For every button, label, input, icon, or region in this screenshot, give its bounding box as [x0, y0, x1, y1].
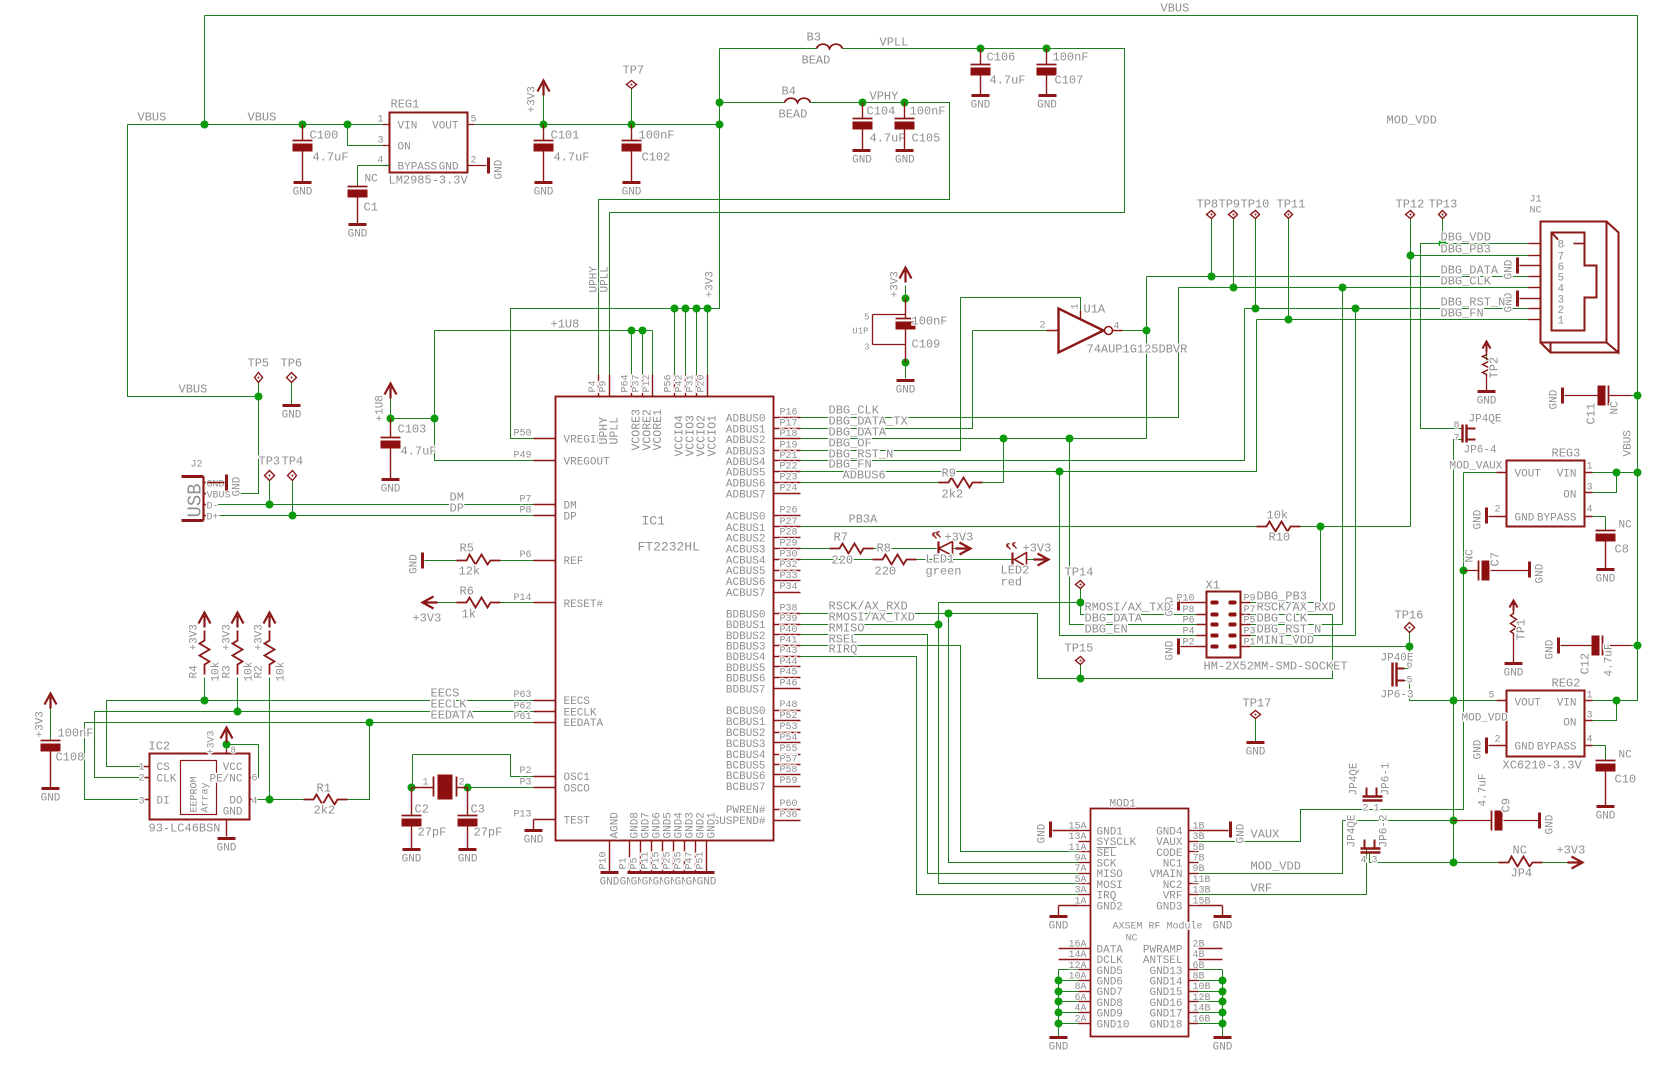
- ground IC1 TEST: [525, 829, 543, 832]
- svg-text:13A: 13A: [1068, 832, 1086, 843]
- svg-text:4: 4: [1114, 322, 1120, 333]
- svg-text:P46: P46: [780, 678, 798, 689]
- wire VPLL cap taps: [981, 49, 1047, 65]
- svg-text:P59: P59: [780, 776, 798, 787]
- svg-text:GND: GND: [282, 410, 302, 422]
- svg-text:8: 8: [231, 746, 236, 756]
- net DBG_OF: [801, 298, 961, 451]
- capacitor C10: [1605, 760, 1607, 762]
- svg-text:GND2: GND2: [1097, 901, 1123, 913]
- svg-text:GND: GND: [1504, 259, 1516, 279]
- svg-text:TP10: TP10: [1241, 198, 1270, 212]
- svg-text:C10: C10: [1615, 773, 1637, 787]
- net EECLK: [95, 712, 534, 778]
- capacitor C108: [50, 740, 52, 742]
- net RESET# via R6: [425, 602, 534, 604]
- capacitor C106: [980, 49, 982, 65]
- svg-text:NC: NC: [1619, 520, 1633, 532]
- wire TP15 stem: [1080, 665, 1082, 679]
- svg-text:TP8: TP8: [1197, 198, 1219, 212]
- svg-text:U1A: U1A: [1084, 303, 1106, 317]
- svg-text:DP: DP: [450, 502, 464, 516]
- svg-text:GND: GND: [697, 877, 717, 889]
- svg-text:VOUT: VOUT: [432, 121, 459, 133]
- crystal Q1: [434, 777, 457, 797]
- svg-text:3: 3: [1587, 483, 1593, 494]
- capacitor C102: [631, 125, 633, 141]
- ground MOD1 right bus: [1214, 1036, 1232, 1039]
- wire JP6-2 pin3 to JP4 row: [1370, 854, 1509, 863]
- ground REG3 pin2: [1485, 508, 1488, 524]
- svg-text:+3V3: +3V3: [1023, 542, 1052, 556]
- svg-text:2: 2: [1494, 505, 1500, 516]
- svg-text:+3V3: +3V3: [221, 624, 233, 650]
- svg-text:GND: GND: [217, 843, 237, 855]
- svg-text:VRF: VRF: [1251, 882, 1273, 896]
- net VPHY loop: [599, 103, 950, 375]
- svg-text:P62: P62: [513, 702, 531, 713]
- svg-text:JP4QE: JP4QE: [1347, 814, 1359, 847]
- svg-text:RESET#: RESET#: [564, 599, 604, 611]
- svg-text:GND: GND: [293, 187, 313, 199]
- svg-text:JP6-4: JP6-4: [1464, 445, 1497, 457]
- svg-text:R8: R8: [877, 542, 891, 556]
- capacitor C9: [1491, 811, 1493, 831]
- svg-text:BCBUS7: BCBUS7: [726, 782, 766, 794]
- svg-text:C3: C3: [471, 803, 485, 817]
- svg-text:C7: C7: [1489, 552, 1503, 566]
- svg-text:DBG_EN: DBG_EN: [1085, 623, 1128, 637]
- svg-text:VBUS: VBUS: [179, 383, 208, 397]
- svg-text:MOD1: MOD1: [1110, 799, 1137, 811]
- svg-text:5A: 5A: [1074, 875, 1086, 886]
- svg-text:8: 8: [1453, 421, 1459, 432]
- svg-text:EECS: EECS: [564, 696, 591, 708]
- svg-text:R1: R1: [317, 782, 331, 796]
- svg-text:4.7uF: 4.7uF: [401, 445, 437, 459]
- svg-text:VPHY: VPHY: [870, 90, 899, 104]
- svg-text:C1: C1: [364, 201, 378, 215]
- svg-text:TP13: TP13: [1429, 198, 1458, 212]
- wire DBG_PB3 to J1 pin7: [1411, 255, 1529, 257]
- svg-text:PE/NC: PE/NC: [209, 774, 242, 786]
- wire VBUS down-left to USB area: [128, 125, 259, 397]
- svg-text:EEPROM: EEPROM: [190, 776, 201, 812]
- svg-text:TP9: TP9: [1219, 198, 1241, 212]
- wire DBG_RST_N to X1 P3: [1251, 309, 1356, 636]
- testpoint TP4: [288, 471, 297, 481]
- capacitor C2: [411, 788, 413, 816]
- wire TP6 stem: [291, 382, 293, 405]
- net OSC0 / crystal row: [412, 755, 534, 788]
- net PB3A to R10: [801, 526, 1257, 528]
- svg-text:TEST: TEST: [564, 816, 591, 828]
- svg-text:TP1: TP1: [1515, 619, 1529, 641]
- svg-text:GND: GND: [439, 162, 459, 174]
- svg-text:P35: P35: [674, 851, 685, 869]
- MOD1 DATA/DCLK stubs: [1059, 949, 1091, 960]
- svg-text:P61: P61: [513, 712, 531, 723]
- testpoint TP10: [1251, 211, 1260, 219]
- net DBG_DATA_TX: [801, 331, 973, 429]
- svg-text:GND: GND: [1515, 513, 1535, 525]
- svg-text:12k: 12k: [459, 565, 481, 579]
- IC IC1 FT2232HL: [556, 397, 774, 841]
- wire +3V3 arrow stem: [543, 96, 545, 125]
- svg-text:R7: R7: [834, 531, 848, 545]
- svg-text:GND: GND: [231, 476, 243, 496]
- connector J1: [1541, 222, 1607, 343]
- net DP: [207, 515, 534, 517]
- svg-text:P25: P25: [663, 851, 674, 869]
- wire REG2 ON to VIN: [1585, 701, 1617, 721]
- USB connector J2: [202, 477, 204, 521]
- svg-text:P30: P30: [780, 550, 798, 561]
- svg-text:R9: R9: [942, 467, 956, 481]
- svg-text:VBUS: VBUS: [207, 491, 231, 502]
- svg-text:VCORE1: VCORE1: [652, 409, 665, 451]
- wire TP13 stem: [1442, 219, 1444, 244]
- svg-text:D-: D-: [207, 502, 219, 513]
- svg-text:BEAD: BEAD: [802, 54, 831, 68]
- testpoint TP1: [1510, 601, 1518, 611]
- svg-text:GND: GND: [494, 159, 506, 179]
- net VRF to JP6-2 pin4: [1199, 848, 1367, 895]
- svg-text:5: 5: [864, 313, 869, 323]
- ferrite bead B3: [817, 44, 843, 48]
- ground TP2: [1478, 390, 1496, 393]
- jumper JP6-1 (JP40E): [1363, 797, 1383, 801]
- ground MOD1 GND4: [1199, 830, 1229, 832]
- svg-text:P26: P26: [780, 506, 798, 517]
- svg-text:TP14: TP14: [1065, 566, 1094, 580]
- svg-text:GND: GND: [1473, 509, 1485, 529]
- power +3V3 arrow at R4: [199, 613, 211, 628]
- svg-text:GND: GND: [1037, 100, 1057, 112]
- jumper JP6-3 (JP40E): [1393, 663, 1397, 687]
- svg-text:GND: GND: [458, 854, 478, 866]
- svg-text:VBUS: VBUS: [1161, 2, 1190, 16]
- wire TP2 top: [1486, 353, 1488, 361]
- svg-text:P31: P31: [686, 374, 697, 392]
- svg-text:5: 5: [471, 115, 477, 126]
- svg-text:TP15: TP15: [1065, 642, 1094, 656]
- svg-text:NC: NC: [1530, 206, 1542, 217]
- svg-text:P9: P9: [598, 380, 609, 392]
- wire VPHY cap taps: [863, 103, 905, 119]
- svg-text:P13: P13: [513, 810, 531, 821]
- svg-text:GND: GND: [1049, 921, 1069, 933]
- svg-text:GND: GND: [1515, 742, 1535, 754]
- svg-text:VREGOUT: VREGOUT: [564, 457, 611, 469]
- net DM: [207, 504, 534, 506]
- svg-text:7: 7: [1453, 434, 1459, 445]
- net ADBUS6 to R9: [801, 482, 939, 484]
- wire R8 to LED2: [917, 559, 1012, 561]
- capacitor C107: [1046, 49, 1048, 65]
- wire TP17 stem: [1255, 719, 1257, 742]
- svg-text:+3V3: +3V3: [207, 730, 218, 754]
- wire TP4 stem: [292, 480, 294, 516]
- ground REG2 pin2: [1485, 738, 1488, 754]
- svg-text:P2: P2: [1182, 637, 1194, 648]
- IC1 bottom GND pin stubs: [609, 841, 611, 872]
- wire JP6-3 pin5 to REG2 VOUT: [1405, 681, 1497, 701]
- svg-text:P3: P3: [519, 777, 531, 788]
- wire MOD_VAUX down to module 3B: [1199, 473, 1464, 842]
- svg-text:C101: C101: [551, 129, 580, 143]
- voltage regulator REG1 LM2985-3.3V: [390, 113, 468, 173]
- wire DBG_CLK to X1 P5: [1251, 288, 1343, 625]
- svg-text:1: 1: [1587, 691, 1593, 702]
- svg-text:C107: C107: [1055, 74, 1084, 88]
- ground bus under IC1: [601, 871, 619, 874]
- svg-text:R3: R3: [221, 665, 233, 678]
- ground J1 pin6: [1516, 258, 1519, 274]
- wire R7 to LED1: [874, 548, 937, 550]
- svg-text:2: 2: [459, 778, 465, 789]
- net MINI_VDD / TP16 / JP6-3 pin6: [1251, 632, 1410, 669]
- svg-text:GND: GND: [41, 793, 61, 805]
- IC1 left pin stubs: [534, 438, 556, 440]
- svg-text:P43: P43: [780, 646, 798, 657]
- svg-text:P39: P39: [780, 614, 798, 625]
- svg-text:8: 8: [1558, 240, 1565, 252]
- svg-text:ADBUS2: ADBUS2: [726, 435, 766, 447]
- svg-text:P18: P18: [780, 429, 798, 440]
- svg-text:Array: Array: [201, 782, 212, 812]
- svg-text:100nF: 100nF: [58, 727, 94, 741]
- net RMISO: [801, 635, 1079, 874]
- svg-text:GND: GND: [1545, 639, 1557, 659]
- svg-text:IC1: IC1: [642, 514, 666, 529]
- power +3V3 arrow at LED1: [956, 543, 971, 555]
- svg-text:4: 4: [377, 156, 383, 167]
- svg-text:11B: 11B: [1193, 875, 1211, 886]
- ground X1 P10: [1177, 595, 1180, 611]
- svg-text:TP16: TP16: [1395, 609, 1424, 623]
- svg-text:P10: P10: [599, 851, 610, 869]
- svg-text:LM2985-3.3V: LM2985-3.3V: [389, 174, 469, 188]
- power +3V3 arrow at R3: [232, 613, 244, 628]
- ground J1 pin3: [1516, 291, 1519, 307]
- net RSEL: [801, 646, 1079, 852]
- svg-text:FT2232HL: FT2232HL: [638, 540, 700, 555]
- svg-text:VAUX: VAUX: [1251, 828, 1280, 842]
- svg-text:220: 220: [875, 565, 897, 579]
- ground TP17: [1247, 741, 1265, 744]
- svg-text:P7: P7: [1244, 605, 1256, 616]
- svg-text:P1: P1: [619, 857, 630, 869]
- svg-text:SUSPEND#: SUSPEND#: [713, 816, 766, 828]
- svg-text:ACBUS0: ACBUS0: [726, 512, 766, 524]
- svg-text:GND10: GND10: [1097, 1019, 1130, 1031]
- svg-text:P34: P34: [780, 582, 798, 593]
- svg-text:P36: P36: [780, 810, 798, 821]
- ground USB GND pin: [225, 475, 228, 491]
- svg-text:P5: P5: [630, 857, 641, 869]
- svg-text:R5: R5: [460, 542, 474, 556]
- svg-text:P19: P19: [780, 440, 798, 451]
- wire TP14 stem: [1080, 589, 1082, 603]
- svg-text:GND: GND: [348, 229, 368, 241]
- svg-text:GND: GND: [895, 155, 915, 167]
- svg-text:+1U8: +1U8: [375, 395, 387, 421]
- svg-text:TP5: TP5: [248, 357, 270, 371]
- svg-text:JP6-1: JP6-1: [1381, 762, 1393, 795]
- svg-text:P28: P28: [780, 528, 798, 539]
- svg-text:ADBUS6: ADBUS6: [843, 469, 886, 483]
- svg-text:CLK: CLK: [157, 774, 177, 786]
- svg-text:1: 1: [1587, 462, 1593, 473]
- capacitor C105: [904, 103, 906, 119]
- svg-text:100nF: 100nF: [912, 315, 948, 329]
- resistor JP4 NC: [1499, 857, 1543, 867]
- svg-text:100nF: 100nF: [910, 105, 946, 119]
- svg-text:C104: C104: [867, 105, 896, 119]
- resistor R9: [939, 478, 983, 488]
- svg-text:4: 4: [1587, 505, 1593, 516]
- svg-text:green: green: [926, 565, 962, 579]
- svg-text:P4: P4: [1182, 626, 1194, 637]
- svg-text:5B: 5B: [1193, 843, 1205, 854]
- svg-text:P10: P10: [1176, 594, 1194, 605]
- svg-text:GND: GND: [1213, 1042, 1233, 1054]
- svg-text:USB: USB: [185, 483, 207, 517]
- svg-text:DBG_FN: DBG_FN: [1441, 307, 1484, 321]
- svg-text:GND: GND: [409, 554, 421, 574]
- svg-text:IC2: IC2: [149, 740, 171, 754]
- capacitor C12: [1592, 636, 1600, 656]
- capacitor C11: [1598, 386, 1606, 406]
- svg-text:NC: NC: [1610, 401, 1622, 415]
- power +3V3 arrow at C109: [900, 268, 912, 283]
- capacitor C3: [467, 788, 469, 816]
- svg-text:R10: R10: [1269, 531, 1291, 545]
- svg-text:BYPASS: BYPASS: [1537, 742, 1577, 754]
- svg-text:VIN: VIN: [1557, 698, 1577, 710]
- LED LED2 red: [1011, 553, 1013, 567]
- svg-text:TP6: TP6: [281, 357, 303, 371]
- testpoint TP5: [255, 373, 263, 383]
- svg-text:CS: CS: [157, 762, 171, 774]
- ground C12: [1557, 638, 1560, 654]
- svg-text:DP: DP: [564, 512, 578, 524]
- net EECS: [107, 701, 534, 767]
- svg-text:GND: GND: [1535, 563, 1547, 583]
- power +3V3 arrow at LED2: [1034, 554, 1049, 566]
- svg-text:6: 6: [252, 774, 258, 785]
- svg-text:4.7uF: 4.7uF: [313, 151, 349, 165]
- testpoint TP6: [287, 373, 297, 383]
- svg-text:MOD_VDD: MOD_VDD: [1387, 114, 1437, 128]
- svg-text:+3V3: +3V3: [705, 271, 717, 297]
- capacitor C104: [862, 103, 864, 119]
- power +3V3 arrow at C108: [45, 694, 57, 709]
- capacitor C1: [357, 186, 359, 188]
- svg-text:C105: C105: [912, 132, 941, 146]
- svg-text:OSCO: OSCO: [564, 783, 591, 795]
- svg-text:TP7: TP7: [623, 64, 645, 78]
- svg-text:MOD_VDD: MOD_VDD: [1462, 713, 1509, 725]
- svg-text:P32: P32: [780, 560, 798, 571]
- wire C109 power taps: [905, 286, 907, 379]
- ground TP1: [1505, 662, 1523, 665]
- ground R5: [421, 553, 424, 569]
- resistor R2: [265, 631, 275, 675]
- voltage regulator REG2 XC6210-3.3V: [1507, 691, 1585, 757]
- jumper JP6-2 (JP40E): [1361, 849, 1381, 853]
- svg-text:REG2: REG2: [1552, 677, 1581, 691]
- svg-text:P5: P5: [1244, 616, 1256, 627]
- svg-text:4: 4: [1587, 735, 1593, 746]
- svg-text:P15: P15: [652, 851, 663, 869]
- svg-text:P51: P51: [696, 851, 707, 869]
- svg-text:P1: P1: [1244, 637, 1256, 648]
- svg-text:+3V3: +3V3: [945, 531, 974, 545]
- svg-text:P7: P7: [519, 495, 531, 506]
- ground X1 P2: [1177, 639, 1180, 655]
- testpoint TP14: [1076, 581, 1085, 589]
- svg-text:C100: C100: [310, 129, 339, 143]
- svg-text:VCC: VCC: [223, 762, 243, 774]
- wire C11 to VBUS: [1632, 395, 1638, 397]
- svg-text:TP3: TP3: [259, 455, 281, 469]
- testpoint TP3: [265, 471, 275, 481]
- svg-text:UPLL: UPLL: [600, 266, 612, 292]
- svg-text:J1: J1: [1530, 195, 1542, 206]
- net RSCK/AX_RXD: [801, 614, 1333, 679]
- capacitor C109: [905, 299, 907, 319]
- svg-text:P37: P37: [632, 374, 643, 392]
- svg-text:4: 4: [1361, 856, 1367, 867]
- svg-text:EEDATA: EEDATA: [431, 709, 475, 723]
- testpoint TP7: [627, 81, 637, 89]
- wire VBUS drop to REG1 row: [204, 16, 206, 125]
- svg-text:VCCIO1: VCCIO1: [707, 415, 720, 457]
- resistor R6: [457, 598, 501, 608]
- svg-text:13B: 13B: [1193, 886, 1211, 897]
- wire C108 stem: [50, 704, 52, 741]
- svg-text:+3V3: +3V3: [527, 86, 539, 112]
- svg-text:GND: GND: [896, 385, 916, 397]
- svg-text:27pF: 27pF: [418, 826, 447, 840]
- svg-text:GND: GND: [1037, 823, 1049, 843]
- wire R2 bottom to DO row: [269, 678, 271, 800]
- resistor R7: [830, 544, 874, 554]
- buffer U1A 74AUP1G125: [1059, 309, 1104, 353]
- svg-text:4.7uF: 4.7uF: [990, 74, 1026, 88]
- jumper JP6-4 (JP4QE): [1463, 425, 1467, 443]
- ground C11: [1561, 388, 1564, 404]
- ferrite bead B4: [785, 98, 811, 102]
- svg-text:NC: NC: [1619, 750, 1633, 762]
- resistor R1: [304, 795, 348, 805]
- svg-text:4.7uF: 4.7uF: [1478, 773, 1490, 806]
- svg-text:C108: C108: [56, 751, 85, 765]
- capacitor C103: [390, 419, 392, 438]
- svg-text:P40: P40: [780, 625, 798, 636]
- svg-text:P56: P56: [664, 374, 675, 392]
- testpoint TP9: [1229, 211, 1238, 219]
- wire JP4 to +3V3: [1533, 862, 1571, 864]
- voltage regulator REG3: [1507, 461, 1585, 527]
- testpoint TP15: [1076, 657, 1085, 665]
- power +3V3 arrow at R2: [264, 613, 276, 628]
- svg-text:VOUT: VOUT: [1515, 698, 1542, 710]
- svg-text:GND: GND: [1165, 640, 1177, 660]
- net DBG_DATA: [801, 277, 1529, 439]
